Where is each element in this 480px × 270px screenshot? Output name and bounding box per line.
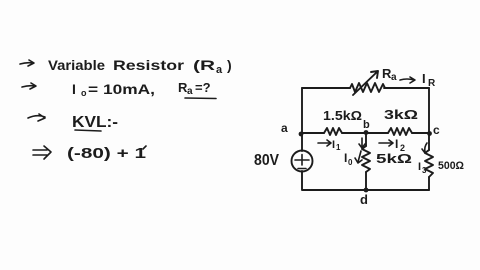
svg-text:0: 0 — [348, 158, 353, 167]
svg-text:500Ω: 500Ω — [438, 160, 464, 172]
svg-text:I: I — [72, 81, 76, 97]
svg-text:5kΩ: 5kΩ — [376, 152, 412, 166]
svg-text:(-80) + 1: (-80) + 1 — [67, 145, 146, 162]
svg-text:KVL:-: KVL:- — [72, 114, 118, 131]
svg-text:Resistor: Resistor — [113, 57, 185, 73]
svg-text:R: R — [428, 78, 436, 89]
svg-text:= 10mA,: = 10mA, — [88, 81, 155, 97]
svg-text:a: a — [187, 86, 193, 97]
svg-text:1.5kΩ: 1.5kΩ — [323, 109, 362, 123]
svg-text:(R: (R — [193, 57, 215, 73]
svg-text:I: I — [422, 71, 426, 86]
svg-text:80V: 80V — [254, 152, 279, 169]
svg-text:b: b — [363, 119, 370, 131]
svg-text:I: I — [395, 137, 398, 151]
svg-text:I: I — [332, 139, 335, 151]
svg-text:a: a — [391, 72, 397, 83]
svg-text:3kΩ: 3kΩ — [384, 107, 418, 122]
svg-text:2: 2 — [400, 143, 405, 153]
svg-text:Variable: Variable — [48, 57, 105, 73]
svg-text:I: I — [344, 151, 347, 165]
svg-text:d: d — [360, 192, 368, 207]
svg-text:c: c — [433, 123, 440, 137]
svg-text:3: 3 — [422, 166, 427, 175]
svg-text:a: a — [216, 64, 223, 76]
svg-text:): ) — [227, 57, 232, 73]
svg-text:1: 1 — [336, 143, 341, 152]
svg-text:=?: =? — [195, 80, 211, 95]
svg-text:o: o — [81, 88, 87, 98]
svg-text:a: a — [281, 121, 288, 135]
svg-text:I: I — [418, 161, 421, 173]
